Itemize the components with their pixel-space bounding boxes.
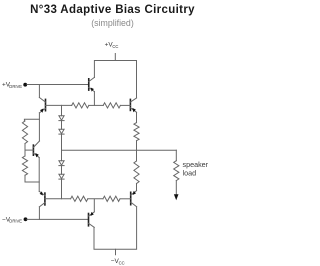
speaker load label [183,160,209,178]
svg-text:DRIVE: DRIVE [9,84,22,89]
svg-text:DRIVE: DRIVE [9,219,22,224]
resistor R5 [71,196,88,201]
power +Vcc stub [114,54,116,61]
transistor Q5 [89,212,95,228]
wire D2 to mid tap [61,134,63,161]
resistor R1 [72,103,89,108]
wire R7 to tap [24,144,26,151]
wire upper run left [46,104,72,106]
transistor Q6 [39,191,45,206]
power -Vcc stub [115,249,117,255]
wire tap to R8 [24,150,26,156]
transistor Q3 [130,98,136,112]
wire +Vdrive to Q2 base [27,84,89,86]
resistor R4 [134,161,139,184]
transistor Q1 [39,98,45,113]
svg-text:load: load [183,169,197,178]
transistor Q7 [33,141,39,158]
wire top rail [94,61,136,99]
wire Q5 emitter up [93,199,95,212]
diode D3 [59,161,64,166]
wire bottom rail [94,207,137,250]
wire D1-D2 [61,121,63,130]
diode D1 [59,116,64,121]
wire lower run right [120,198,131,200]
power +Vcc label [105,42,119,49]
wire R4 to Q4 emitter [136,184,138,191]
resistor R3 [134,123,139,141]
wire Q1 emitter to Q7 collector [38,113,40,141]
resistor R2 [103,103,120,108]
wire Q7 base tap [25,149,33,151]
wire left column bottom [25,175,39,182]
wire speaker to arrow [175,181,177,195]
wire D3-D4 [61,166,63,175]
wire diode chain top [61,105,63,115]
resistor R8 [22,156,27,175]
diode D2 [59,129,64,134]
wire -Vdrive to Q5 base [27,218,89,220]
node +Vdrive label [2,82,22,89]
resistor speaker load [174,161,179,181]
wire lower run left [45,198,71,200]
resistor R6 [103,196,120,201]
wire Q1 collector branch [38,85,40,98]
wire R4 top [136,150,138,161]
subtitle [0,18,225,28]
wire Q3 emitter down [136,112,138,122]
transistor Q4 [131,191,137,207]
title [0,4,225,16]
wire upper run right [120,104,130,106]
svg-text:CC: CC [112,44,118,49]
svg-text:CC: CC [119,260,125,265]
speaker arrow [174,194,179,200]
wire speaker drop [175,150,177,161]
wire Q7 emitter to Q6 emitter [38,158,40,192]
wire D4 to lower run [61,179,63,199]
resistor R7 [22,121,27,144]
power -Vcc label [111,258,125,265]
node -Vdrive dot [24,217,28,221]
wire Q2 emitter down [93,92,95,106]
wire Q6 collector branch [38,207,40,220]
node -Vdrive label [2,216,22,223]
wire left column top [24,119,39,121]
diode D4 [59,174,64,179]
wire mid node [62,149,177,151]
transistor Q2 [89,77,95,91]
wire R3 top [136,141,138,151]
node +Vdrive dot [23,83,27,87]
wire upper run middle [89,104,103,106]
wire lower run middle [88,198,103,200]
